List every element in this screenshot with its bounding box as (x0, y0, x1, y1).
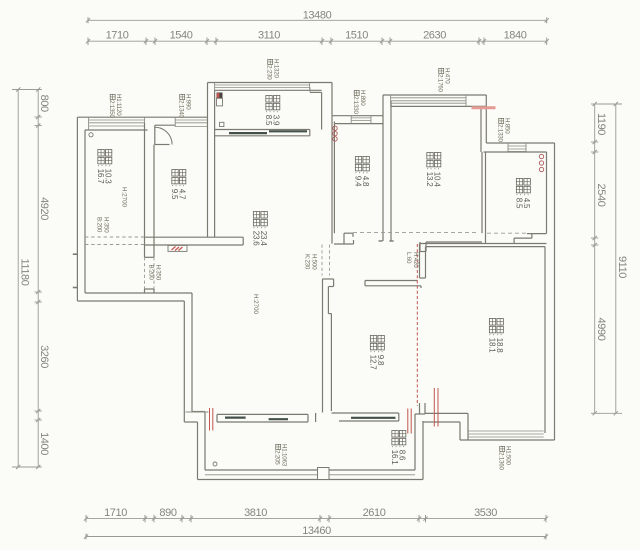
wall bedroom-mid east pair (481, 95, 486, 152)
svg-text:: 9.5: : 9.5 (170, 185, 179, 200)
svg-text:13460: 13460 (302, 525, 331, 537)
wall kitchen south (334, 233, 354, 244)
wall balcony-north top outer (208, 82, 333, 84)
sliding window living to balcony-south (217, 413, 316, 422)
window room-18.8 south bay (460, 431, 555, 440)
svg-text:2:1360: 2:1360 (498, 452, 505, 470)
beam highlight salmon (472, 106, 496, 109)
wall bathroom south (487, 233, 547, 243)
stub ticks on west wall (73, 254, 78, 287)
circle marker balcony-south (213, 462, 217, 466)
wall bedroom-left east pair with opening (145, 123, 155, 293)
circle marker bedroom-left (89, 133, 93, 137)
wall between balcony-south and room-18.8 (415, 403, 425, 480)
svg-text:2610: 2610 (363, 507, 386, 519)
svg-text:2:1330: 2:1330 (352, 96, 359, 114)
svg-text:1710: 1710 (104, 507, 127, 519)
svg-text:: 16.7: : 16.7 (96, 165, 105, 185)
wall bedroom-mid top + window (383, 95, 486, 106)
dimension overall bottom 13460 (84, 525, 548, 539)
label kitchen 4.8 (353, 156, 370, 187)
svg-text:: 13.2: : 13.2 (425, 168, 434, 188)
small square balcony-north (220, 122, 224, 126)
svg-text:3110: 3110 (258, 30, 280, 42)
wall top-right with window (484, 143, 555, 152)
wall bedroom-left west inner (84, 130, 86, 293)
corridor dashed line (353, 232, 476, 234)
svg-text:800: 800 (38, 95, 50, 112)
ann window kitchen (352, 90, 366, 115)
ann window bedroom-left (108, 94, 122, 119)
svg-text:: 8.5: : 8.5 (514, 194, 523, 209)
svg-text:B:200: B:200 (148, 265, 155, 281)
label hallway 4.7 (170, 169, 187, 200)
svg-text:13480: 13480 (303, 9, 332, 21)
red tick pair C (210, 408, 213, 431)
dimension overall right 9110 (598, 102, 628, 416)
dashed opening dining to corridor (322, 245, 330, 276)
text H350 B200 hall (148, 265, 162, 281)
wall room-9.8 top (365, 281, 421, 289)
svg-text:: 8.5: : 8.5 (264, 111, 273, 126)
wall room-18.8 east inner (544, 247, 546, 433)
wall room-18.8 top (420, 244, 547, 247)
wall living south jog line (186, 411, 209, 413)
wall bathroom east inner (546, 152, 548, 234)
svg-text:3260: 3260 (38, 345, 50, 368)
ann H2700 living (252, 294, 259, 315)
svg-text:: 12.7: : 12.7 (368, 351, 377, 371)
svg-text:3530: 3530 (474, 507, 497, 519)
wall top-left outer (77, 116, 207, 118)
dimension overall left 11180 (12, 87, 41, 469)
ann window balcony-north (266, 59, 280, 80)
wall step south of bedroom-left (77, 293, 192, 301)
ann window bedroom-mid (437, 68, 451, 93)
svg-text:H:2700: H:2700 (252, 294, 259, 315)
svg-text:2:1340: 2:1340 (178, 100, 185, 118)
label bathroom 4.5 (514, 178, 531, 209)
label bedroom-mid 10.4 (425, 152, 442, 187)
dimension chain bottom (84, 507, 548, 523)
red dashed wall line (416, 244, 418, 406)
wall balcony-north west pair (208, 83, 215, 238)
dashed wardrobe bedroom-left (85, 237, 145, 245)
label room-9.8 (368, 335, 385, 370)
svg-text:: 16.1: : 16.1 (390, 446, 399, 466)
svg-text:2:230: 2:230 (266, 65, 273, 80)
column box balcony-south (318, 468, 330, 480)
svg-text:: 9.4: : 9.4 (353, 172, 362, 187)
ann window bay south (498, 446, 512, 471)
dimension chain top (86, 30, 549, 45)
svg-text:1400: 1400 (38, 432, 50, 455)
wall building east outer (554, 143, 556, 440)
svg-text:K:230: K:230 (304, 254, 311, 270)
svg-text:: 23.6: : 23.6 (251, 227, 260, 247)
dimension chain right (591, 102, 607, 416)
red tick pair B (434, 388, 438, 427)
wall kitchen-bedroom pair (379, 95, 394, 241)
balcony-south bottom band (198, 470, 424, 480)
svg-text:1840: 1840 (504, 30, 527, 42)
wall jog to balcony-south (184, 412, 205, 423)
TV marker rect hallway (168, 245, 187, 251)
label living 23.4 (251, 211, 268, 246)
wall room-9.8 south + window (332, 413, 399, 421)
svg-text:2:1330: 2:1330 (497, 124, 504, 142)
door entry D1 (155, 125, 175, 144)
svg-text:L:60: L:60 (405, 252, 412, 264)
wall bedroom-left west outer (76, 117, 78, 301)
svg-text:1190: 1190 (595, 113, 607, 135)
svg-text:1540: 1540 (170, 30, 193, 42)
wall balcony-south west (198, 412, 206, 480)
ann balcony-south rail (274, 444, 288, 467)
ann dining opening (304, 254, 318, 270)
svg-text:B:200: B:200 (96, 217, 103, 233)
wall west of living room (184, 293, 192, 422)
svg-text:1710: 1710 (106, 30, 129, 42)
svg-text:H:2700: H:2700 (121, 187, 128, 208)
label room-18.8 (487, 318, 504, 353)
wall bathroom west pair (482, 152, 486, 243)
wall hallway south band (145, 237, 243, 245)
label balcony-north 3.9 (264, 95, 281, 126)
svg-text:2630: 2630 (423, 30, 446, 42)
wall balcony-north east (310, 83, 332, 130)
ann window top-right (497, 118, 511, 143)
ann H2700 bedroom-left (121, 187, 128, 208)
svg-text:2:1760: 2:1760 (437, 74, 444, 92)
svg-text:1510: 1510 (345, 30, 368, 42)
dimension chain left (35, 87, 51, 469)
svg-text:4920: 4920 (38, 197, 50, 220)
wall room-18.8 south-west step (423, 413, 468, 440)
wall stub head room-9.8 west (323, 279, 334, 413)
window top entry transom (175, 117, 208, 126)
ann room18 opening (405, 252, 419, 268)
wall bedroom-mid south with step (420, 242, 482, 252)
svg-text:3810: 3810 (244, 507, 267, 519)
marker box balcony-north (217, 93, 223, 106)
dimension overall top 13480 (86, 9, 549, 23)
label balcony-south 8.6 (390, 430, 407, 465)
label bedroom-left 10.3 (96, 149, 113, 184)
wall kitchen west (332, 116, 334, 244)
svg-text:9110: 9110 (616, 256, 628, 278)
ann window entry (178, 94, 192, 119)
gas pipe circles kitchen (333, 126, 337, 141)
ann opening niche bedroom (96, 217, 110, 233)
svg-text:2:205: 2:205 (274, 450, 281, 465)
red tick pair A (408, 409, 411, 434)
sliding door balcony-north to living (215, 130, 310, 136)
wall kitchen top + window (332, 116, 383, 124)
wall room-18.8 west stub (420, 244, 426, 279)
svg-text:890: 890 (159, 507, 176, 519)
window bedroom-left top (85, 117, 148, 130)
svg-text:2:1350: 2:1350 (108, 100, 115, 118)
svg-text:4990: 4990 (595, 318, 607, 341)
window balcony-north top (215, 83, 322, 91)
svg-text:: 18.1: : 18.1 (487, 334, 496, 354)
pipe circles bathroom (539, 154, 543, 171)
svg-text:2540: 2540 (595, 184, 607, 207)
svg-text:11180: 11180 (19, 259, 31, 286)
